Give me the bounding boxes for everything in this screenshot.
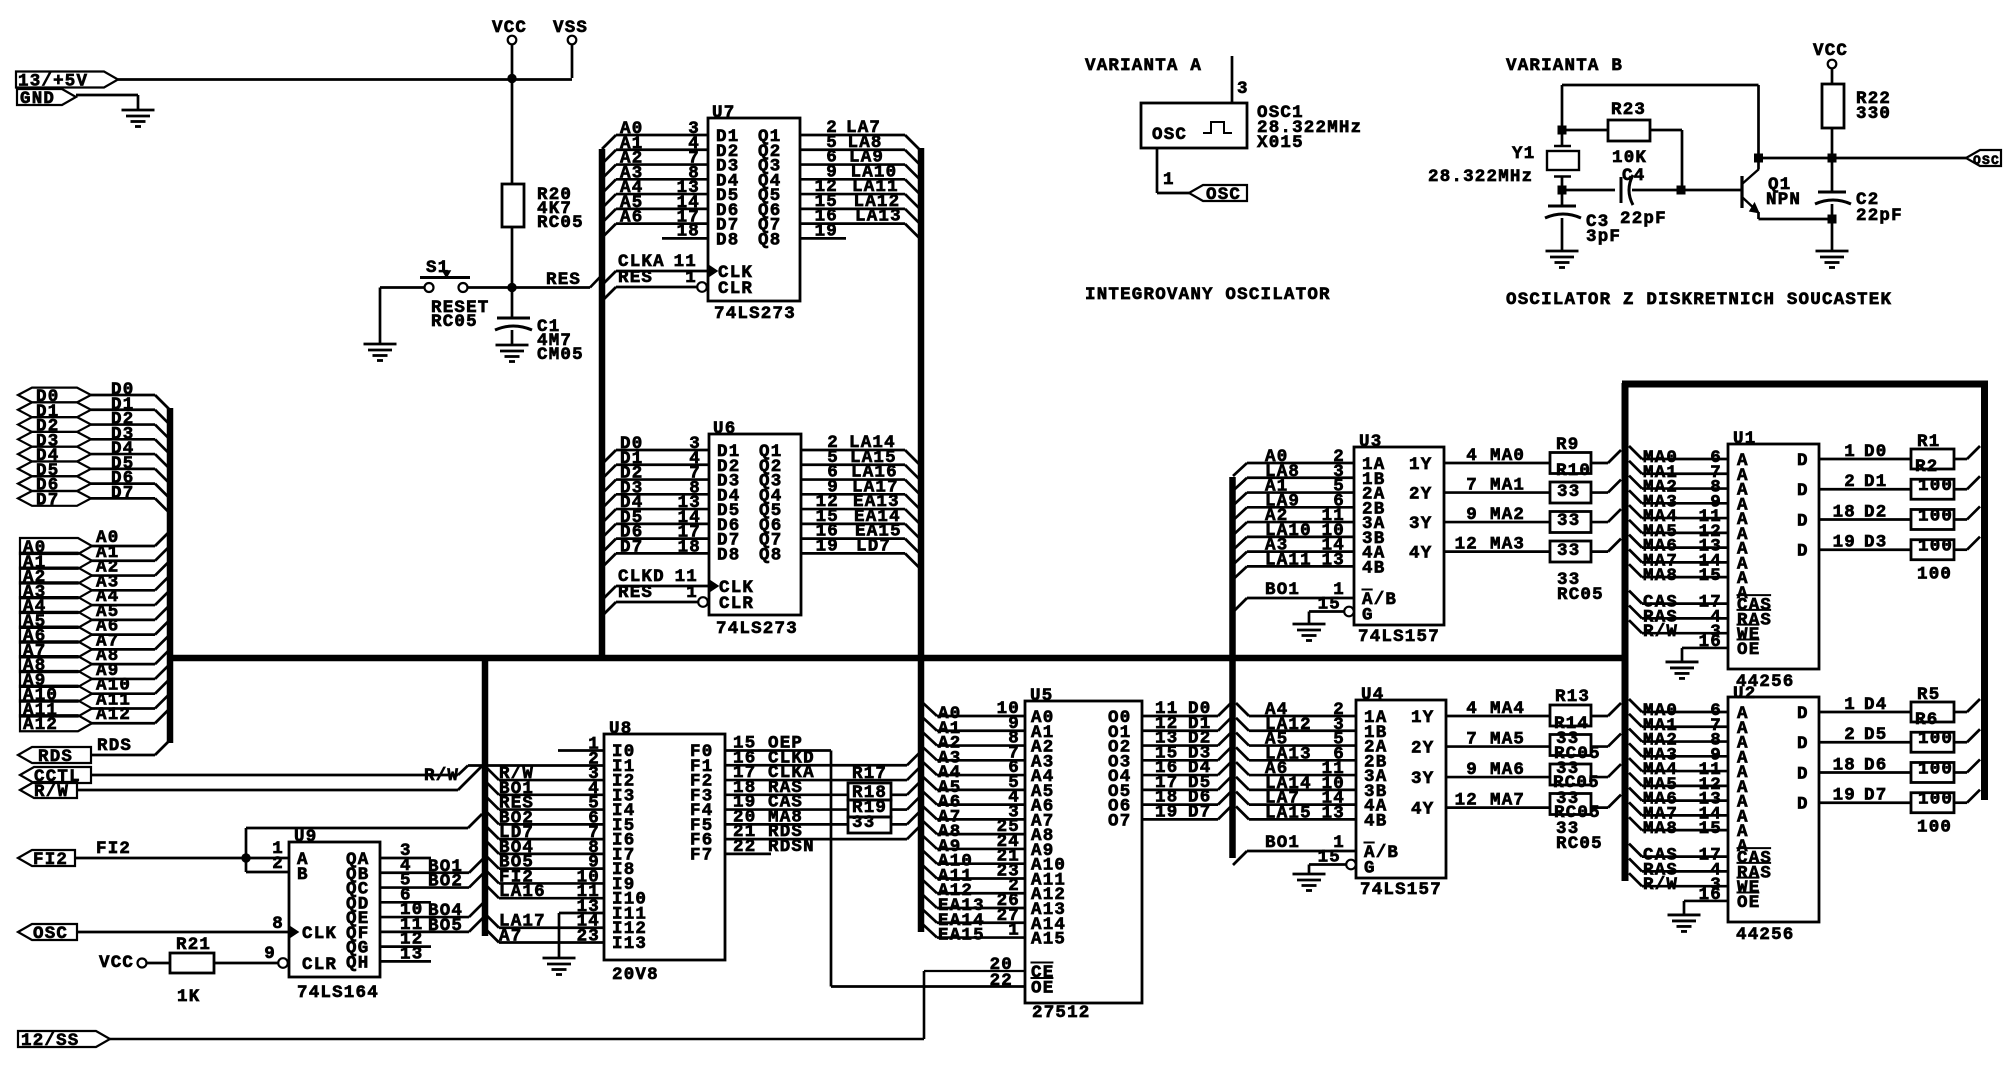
connector A1 (address) [20, 553, 92, 573]
wire U7 CLR pin 1 net RES [602, 268, 707, 301]
wire U1 OE pin 16 to ground [1682, 632, 1728, 662]
wire U1 pin 8 net MA2 [1629, 476, 1728, 498]
svg-text:D: D [1797, 795, 1809, 815]
svg-text:O7: O7 [1108, 811, 1131, 831]
wire U6 pin 4 net D1 [602, 449, 709, 479]
wire U8 pin 10 net FI2 [485, 867, 604, 887]
svg-text:2Y: 2Y [1409, 485, 1432, 505]
wire net D6 to bus [91, 469, 169, 498]
wire U8 pin 20 net MA8 through resistor [725, 807, 920, 827]
wire U5 CE pin 20 [990, 955, 1013, 975]
svg-text:R23: R23 [1611, 100, 1646, 120]
svg-text:D6: D6 [1864, 755, 1887, 775]
wire U3 pin 10 net LA10 [1233, 521, 1354, 550]
wire U8 pin 18 net RAS through resistor [725, 778, 920, 798]
svg-text:OE: OE [1737, 893, 1760, 913]
svg-text:BO1: BO1 [1265, 833, 1300, 853]
svg-text:VCC: VCC [1813, 41, 1848, 61]
svg-text:RDS: RDS [38, 747, 73, 767]
connector A5 (address) [20, 612, 92, 632]
connector D3 (data) [18, 431, 91, 451]
wire U3 pin 12 net MA3 [1444, 535, 1621, 555]
bus horizontal RAM top [1622, 381, 1988, 388]
svg-text:100: 100 [1918, 729, 1953, 749]
svg-text:100: 100 [1918, 790, 1953, 810]
svg-text:F7: F7 [690, 845, 713, 865]
svg-text:MA1: MA1 [1490, 476, 1525, 496]
svg-text:C4: C4 [1622, 166, 1645, 186]
wire U1 pin 12 net MA5 [1629, 520, 1728, 542]
wire U5 pin 19 net D7 [1142, 802, 1231, 822]
chip U5 27512 [1025, 686, 1142, 1023]
wire U7 pin 18 stub [662, 221, 708, 241]
wire U5 pin 8 net A2 [923, 729, 1025, 754]
wire U8 pin 13 to ground [559, 897, 604, 958]
title VARIANTA B [1506, 56, 1623, 76]
wire U6 pin 3 net D0 [602, 434, 709, 464]
wire U1 pin 4 net RAS [1629, 605, 1728, 627]
svg-text:33: 33 [1557, 511, 1580, 531]
wire U7 pin 2 net LA7 [800, 118, 919, 149]
wire U4 pin 14 net LA7 [1236, 789, 1356, 809]
wire to ground (variant B) [1831, 219, 1834, 251]
connector A7 (address) [20, 641, 92, 661]
capacitor C2 22pF [1815, 158, 1903, 226]
wire U8 pin 9 net BO5 [485, 853, 604, 873]
wire U5 pin 16 net D4 [1142, 758, 1231, 778]
svg-text:7: 7 [1466, 476, 1478, 496]
wire net A7 to bus [91, 631, 169, 651]
wire U2 pin 7 net MA1 [1629, 714, 1728, 736]
wire U5 pin 6 net A4 [923, 758, 1025, 783]
svg-text:CLR: CLR [302, 955, 337, 975]
svg-text:R17: R17 [852, 764, 887, 784]
svg-text:D4: D4 [1864, 695, 1887, 715]
wire net D1 to bus [91, 395, 169, 424]
svg-text:Y1: Y1 [1512, 144, 1535, 164]
wire OSC node to tag [1832, 157, 1966, 160]
chip U7 74LS273 [708, 103, 800, 324]
svg-text:2: 2 [272, 854, 284, 874]
svg-text:1: 1 [1008, 921, 1020, 941]
svg-text:22: 22 [990, 971, 1013, 991]
switch S1 RESET [420, 258, 490, 332]
svg-text:MA2: MA2 [1490, 505, 1525, 525]
wire U5 pin 18 net D6 [1142, 788, 1231, 808]
bus vertical RAM left [1622, 383, 1629, 881]
connector A8 (address) [20, 656, 92, 676]
wire R/W tag to bus [77, 766, 482, 790]
wire U2 pin 9 net MA3 [1629, 743, 1728, 765]
wire net A12 to bus [91, 705, 169, 725]
svg-text:9: 9 [1466, 760, 1478, 780]
svg-text:100: 100 [1918, 537, 1953, 557]
svg-text:33: 33 [1557, 541, 1580, 561]
wire net D7 to bus [91, 483, 169, 512]
wire U4 pin 11 net A6 [1236, 759, 1356, 779]
resistor R17 33 [848, 764, 891, 800]
svg-text:X015: X015 [1257, 133, 1304, 153]
connector 13/+5V [16, 72, 118, 92]
svg-text:MA0: MA0 [1490, 446, 1525, 466]
wire U6 pin 18 net D7 [602, 537, 709, 567]
svg-text:18: 18 [677, 221, 700, 241]
junction base node [1677, 186, 1686, 195]
svg-text:13: 13 [400, 944, 423, 964]
svg-text:19: 19 [816, 536, 839, 556]
svg-text:Q8: Q8 [758, 230, 781, 250]
wire U7 pin 6 net LA9 [800, 148, 919, 179]
wire U2 OE pin 16 to ground [1684, 885, 1728, 915]
transistor Q1 NPN [1742, 169, 1801, 219]
resistor R19 33 [848, 798, 891, 833]
wire U1 pin 11 net MA4 [1629, 505, 1728, 527]
svg-text:13: 13 [1322, 550, 1345, 570]
wire U7 pin 4 net A1 [602, 134, 708, 164]
svg-text:U5: U5 [1030, 686, 1053, 706]
svg-text:MA8: MA8 [1643, 566, 1678, 586]
junction +5V/VCC [507, 74, 516, 83]
svg-text:R5: R5 [1917, 685, 1940, 705]
wire net A4 to bus [91, 587, 169, 607]
wire net D5 to bus [91, 454, 169, 483]
resistor R13 33 [1550, 687, 1591, 726]
wire U1 pin 1 net D0 [1819, 442, 1980, 462]
wire U5 pin 25 net A8 [923, 817, 1025, 842]
wire U4 pin 10 net LA14 [1236, 774, 1356, 794]
svg-text:CLR: CLR [719, 594, 754, 614]
svg-text:D8: D8 [716, 230, 739, 250]
wire U9 pin 6 stub [380, 885, 431, 905]
wire U8 pin 23 net A7 [485, 927, 604, 947]
svg-text:D: D [1797, 734, 1809, 754]
resistor R9 33 [1550, 435, 1591, 474]
wire GND tag to ground [76, 95, 138, 110]
connector D6 (data) [18, 476, 91, 496]
wire U8 pin 11 net LA16 [485, 882, 604, 902]
svg-text:15: 15 [1699, 566, 1722, 586]
svg-text:R21: R21 [176, 935, 211, 955]
connector D7 (data) [18, 490, 91, 510]
svg-text:D: D [1797, 704, 1809, 724]
svg-text:A7: A7 [499, 927, 522, 947]
svg-text:18: 18 [678, 537, 701, 557]
resistor R10 33 [1550, 461, 1591, 503]
chip U3 74LS157 [1344, 432, 1444, 647]
wire base node to Q1 [1681, 189, 1742, 192]
wire net 12/SS to U5 CE [110, 971, 1025, 1039]
wire U2 pin 2 net D5 [1819, 725, 1980, 745]
power label VCC [492, 18, 527, 44]
capacitor C3 3pF [1545, 190, 1621, 251]
svg-text:7: 7 [1466, 730, 1478, 750]
ground S1 [364, 344, 397, 361]
wire U7 pin 8 net A3 [602, 163, 708, 193]
svg-text:OE: OE [1031, 979, 1054, 999]
wire U4 A/B pin 1 net BO1 [1233, 833, 1356, 865]
wire U2 pin 8 net MA2 [1629, 729, 1728, 751]
connector A0 (address) [20, 538, 92, 558]
wire U8 pin 21 net RDS to bus [725, 822, 920, 842]
wire net D4 to bus [91, 439, 169, 468]
power label VCC (variant B) [1813, 41, 1848, 68]
connector D1 (data) [18, 402, 91, 422]
resistor R8 100 [1911, 790, 1954, 838]
wire S1 left to ground [380, 288, 425, 345]
wire U5 pin 1 net EA15 [923, 921, 1025, 946]
svg-text:16: 16 [1699, 885, 1722, 905]
svg-text:D7: D7 [36, 490, 59, 510]
connector D2 (data) [18, 417, 91, 437]
wire U3 pin 7 net MA1 [1444, 476, 1621, 496]
title OSCILATOR Z DISKRETNICH SOUCASTEK [1506, 290, 1892, 310]
svg-text:16: 16 [1699, 632, 1722, 652]
svg-text:27512: 27512 [1032, 1003, 1091, 1023]
wire U2 pin 11 net MA4 [1629, 758, 1728, 780]
svg-text:U4: U4 [1361, 685, 1384, 705]
connector A3 (address) [20, 582, 92, 602]
wire U5 pin 5 net A5 [923, 773, 1025, 798]
connector A9 (address) [20, 671, 92, 691]
wire VCC to R22 [1831, 68, 1834, 84]
svg-text:G: G [1362, 606, 1374, 626]
wire Y1 node up to loop [1561, 85, 1564, 130]
wire net D0 to bus [91, 380, 169, 409]
wire U8 pin 2 (R/W line) [588, 749, 600, 769]
power label VSS [553, 18, 588, 44]
wire VCC to R20 [511, 78, 514, 184]
ground U1 OE [1666, 662, 1699, 679]
svg-text:1: 1 [1844, 695, 1856, 715]
wire U4 pin 5 net A5 [1236, 730, 1356, 750]
bus vertical U7/U6 outputs to U5 [918, 148, 925, 932]
junction OSC node [1828, 154, 1837, 163]
svg-text:74LS273: 74LS273 [716, 619, 798, 639]
resistor R1 100 [1911, 432, 1954, 469]
chip U4 74LS157 [1346, 685, 1446, 900]
wire U6 pin 2 net LA14 [801, 433, 919, 464]
svg-text:3: 3 [1237, 79, 1249, 99]
wire R22 to OSC node [1831, 128, 1834, 158]
wire VSS stub [571, 44, 574, 78]
connector A12 (address) [20, 715, 92, 735]
svg-text:4Y: 4Y [1409, 544, 1432, 564]
resistor R21 1K [170, 935, 214, 1007]
wire U8 pin 17 net CLKA to bus [725, 763, 920, 783]
svg-text:23: 23 [577, 927, 600, 947]
wire U6 pin 8 net D3 [602, 478, 709, 508]
ground U8 pin 13 [543, 958, 576, 975]
svg-text:19: 19 [1833, 533, 1856, 553]
svg-text:D3: D3 [1864, 533, 1887, 553]
wire U3 pin 5 net A1 [1233, 477, 1354, 506]
svg-text:R2: R2 [1915, 457, 1938, 477]
wire FI2 node to U9 B pin 2 and bus [246, 814, 482, 874]
svg-text:U1: U1 [1733, 429, 1756, 449]
chip U6 74LS273 [709, 419, 801, 639]
svg-text:OSC: OSC [33, 924, 68, 944]
svg-text:LA11: LA11 [1265, 550, 1312, 570]
svg-text:15: 15 [1699, 819, 1722, 839]
wire U4 pin 9 net MA6 [1446, 760, 1621, 780]
wire U8 pin 19 net CAS through resistor [725, 793, 920, 813]
svg-text:MA5: MA5 [1490, 730, 1525, 750]
ground U3 G [1293, 624, 1326, 641]
wire U4 G pin 15 to ground [1309, 848, 1346, 875]
connector A4 (address) [20, 597, 92, 617]
svg-text:RES: RES [618, 268, 653, 288]
svg-text:D: D [1797, 481, 1809, 501]
svg-text:U6: U6 [713, 419, 736, 439]
wire U2 pin 15 net MA8 [1629, 817, 1728, 839]
svg-text:A6: A6 [620, 208, 643, 228]
wire U5 pin 17 net D5 [1142, 773, 1231, 793]
svg-text:74LS157: 74LS157 [1360, 880, 1442, 900]
wire U8 pin 3 net R/W [485, 764, 604, 784]
wire U2 pin 12 net MA5 [1629, 773, 1728, 795]
oscillator OSC1 28.322MHz [1141, 103, 1362, 153]
svg-text:U7: U7 [712, 103, 735, 123]
wire U4 pin 13 net LA15 [1236, 803, 1356, 823]
wire U5 pin 7 net A3 [923, 743, 1025, 768]
svg-text:100: 100 [1917, 818, 1952, 838]
svg-text:MA8: MA8 [1643, 819, 1678, 839]
wire U8 pin 8 net BO4 [485, 838, 604, 858]
capacitor C4 22pF [1562, 166, 1681, 229]
svg-text:100: 100 [1917, 565, 1952, 585]
wire U1 pin 18 net D2 [1819, 502, 1980, 522]
svg-text:D2: D2 [1864, 502, 1887, 522]
svg-text:D0: D0 [1864, 442, 1887, 462]
svg-text:1: 1 [685, 268, 697, 288]
wire U4 pin 6 net LA13 [1236, 744, 1356, 764]
svg-text:RC05: RC05 [537, 213, 584, 233]
wire S1 to RES node [468, 286, 513, 289]
wire U9 pin 3 stub [380, 841, 431, 861]
wire U4 pin 12 net MA7 [1446, 791, 1621, 811]
svg-text:2: 2 [1844, 725, 1856, 745]
resistor R3 100 [1911, 506, 1954, 529]
svg-text:B: B [297, 865, 309, 885]
svg-text:13: 13 [1322, 803, 1345, 823]
wire VCC to R21 [146, 962, 170, 965]
wire collector to OSC node [1759, 157, 1833, 160]
wire U5 pin 23 net A11 [923, 861, 1025, 886]
svg-text:D7: D7 [1864, 786, 1887, 806]
wire U5 pin 13 net D2 [1142, 729, 1231, 749]
connector RDS [18, 747, 91, 767]
svg-text:FI2: FI2 [96, 839, 131, 859]
svg-text:CLK: CLK [302, 924, 337, 944]
wire net RDS to bus [91, 736, 169, 756]
svg-text:A12: A12 [96, 705, 131, 725]
connector D5 (data) [18, 461, 91, 481]
wire U3 A/B pin 1 net BO1 [1233, 580, 1354, 612]
svg-text:D: D [1797, 451, 1809, 471]
svg-text:4: 4 [1466, 446, 1478, 466]
connector A2 (address) [20, 568, 92, 588]
svg-text:OSC: OSC [1973, 153, 2000, 168]
svg-text:D: D [1797, 764, 1809, 784]
svg-text:74LS273: 74LS273 [714, 304, 796, 324]
svg-text:4Y: 4Y [1411, 800, 1434, 820]
wire U2 pin 13 net MA6 [1629, 788, 1728, 810]
wire net D3 to bus [91, 424, 169, 453]
wire U4 pin 2 net A4 [1236, 700, 1356, 720]
wire net RES to bus [512, 270, 602, 290]
wire U6 pin 12 net EA13 [801, 492, 919, 523]
wire U7 CLK pin 11 net CLKA [602, 252, 708, 285]
svg-text:VCC: VCC [99, 953, 134, 973]
crystal Y1 28.322MHz [1428, 130, 1579, 190]
svg-text:U9: U9 [294, 827, 317, 847]
svg-text:NPN: NPN [1766, 190, 1801, 210]
svg-text:RDS: RDS [97, 736, 132, 756]
svg-text:I13: I13 [612, 934, 647, 954]
wire U6 pin 9 net LA17 [801, 477, 919, 508]
svg-text:LA15: LA15 [1265, 803, 1312, 823]
wire net A2 to bus [91, 558, 169, 578]
wire U6 pin 16 net EA15 [801, 522, 919, 553]
resistor R15 33 [1550, 744, 1601, 785]
wire U6 pin 15 net EA14 [801, 507, 919, 538]
wire U9 pin 13 stub [380, 944, 431, 964]
wire R20 to RES node [511, 227, 514, 287]
connector FI2 [18, 850, 75, 870]
svg-text:12/SS: 12/SS [21, 1031, 80, 1051]
svg-text:R1: R1 [1917, 432, 1940, 452]
wire OSC1 pin 3 [1232, 56, 1249, 103]
svg-text:VARIANTA B: VARIANTA B [1506, 56, 1623, 76]
wire U6 pin 6 net LA16 [801, 463, 919, 494]
svg-text:MA3: MA3 [1490, 535, 1525, 555]
wire U5 pin 10 net A0 [923, 699, 1025, 724]
svg-text:MA4: MA4 [1490, 699, 1525, 719]
svg-text:33: 33 [852, 813, 875, 833]
wire U8 pin 16 net CLKD to bus [725, 748, 920, 768]
svg-text:9: 9 [1466, 505, 1478, 525]
wire U2 pin 1 net D4 [1819, 695, 1980, 715]
wire U7 pin 12 net LA11 [800, 177, 919, 208]
connector D4 (data) [18, 446, 91, 466]
svg-text:D8: D8 [717, 545, 740, 565]
svg-text:R10: R10 [1556, 461, 1591, 481]
svg-text:OSCILATOR Z DISKRETNICH SOUCAS: OSCILATOR Z DISKRETNICH SOUCASTEK [1506, 290, 1892, 310]
ground variant B [1816, 251, 1849, 268]
resistor R18 33 [848, 783, 891, 817]
junction emitter/C2 node [1828, 215, 1837, 224]
wire net R/W from CCTL to U8 [91, 766, 604, 787]
wire U9 pin 12 stub [380, 930, 431, 950]
resistor R14 33 [1550, 714, 1591, 756]
svg-text:4B: 4B [1362, 558, 1385, 578]
bus vertical left data/address [167, 408, 174, 743]
wire U2 pin 18 net D6 [1819, 755, 1980, 775]
wire U9 pin 11 net BO5 [380, 915, 483, 936]
wire U4 pin 7 net MA5 [1446, 730, 1621, 750]
svg-text:4B: 4B [1364, 811, 1387, 831]
svg-text:D7: D7 [1188, 802, 1211, 822]
wire U5 pin 9 net A1 [923, 714, 1025, 739]
svg-text:1: 1 [1163, 170, 1175, 190]
svg-text:CLR: CLR [718, 279, 753, 299]
svg-text:3Y: 3Y [1409, 514, 1432, 534]
svg-text:1: 1 [686, 583, 698, 603]
svg-text:U2: U2 [1733, 684, 1756, 704]
wire U5 pin 24 net A9 [923, 832, 1025, 857]
svg-text:R13: R13 [1555, 687, 1590, 707]
svg-text:OE: OE [1737, 640, 1760, 660]
